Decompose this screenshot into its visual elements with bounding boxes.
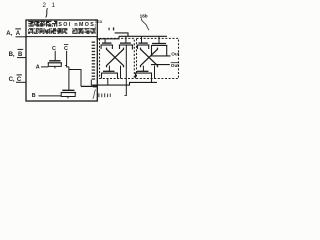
wire top rail xyxy=(119,35,167,37)
title text line2 hangul blobs xyxy=(28,28,96,34)
node B gate label xyxy=(32,93,36,99)
cell1 transistor Q3 (top left) xyxy=(101,39,114,49)
junction blob at box edge xyxy=(93,85,98,88)
title text line1 hangul blobs xyxy=(28,21,57,27)
wire A into box xyxy=(16,36,27,38)
overline of Abar xyxy=(15,28,21,30)
input label B,Bbar xyxy=(9,52,23,58)
wire bottom rail xyxy=(91,82,157,85)
block 21: pass-transistor network box xyxy=(26,20,97,101)
transistor Q2 xyxy=(61,90,76,98)
leader squiggle bottom left xyxy=(93,90,96,99)
wire Cbar down xyxy=(67,51,69,67)
cell1 cross-coupled X xyxy=(107,48,124,68)
input label C,Cbar xyxy=(9,77,22,83)
cell2 cross-coupled X xyxy=(141,48,158,68)
divider under title text xyxy=(26,36,97,38)
label Out xyxy=(171,52,180,57)
wire cell2 X leg down xyxy=(154,66,156,79)
wire cell1 output down xyxy=(125,45,127,96)
cell1 transistor Q5 (bottom) xyxy=(101,66,118,79)
latch cell 1 dashed box xyxy=(100,38,135,78)
node A gate label xyxy=(36,65,40,71)
svg-text:SOI nMOS: SOI nMOS xyxy=(58,22,95,28)
svg-text:Out: Out xyxy=(171,63,180,68)
tick b above top wire xyxy=(113,27,114,30)
leader for label 21 xyxy=(46,8,48,17)
svg-text:B,: B, xyxy=(9,52,15,58)
svg-text:A: A xyxy=(16,31,21,37)
overline of Cbar xyxy=(17,74,22,76)
wire C into box xyxy=(16,81,26,83)
overline of Outbar xyxy=(171,62,179,64)
node Cbar inside box xyxy=(64,46,68,52)
cell2 transistor Q6 (top left) xyxy=(137,36,150,49)
wire Outbar xyxy=(151,64,170,66)
leader for 16b xyxy=(141,18,149,30)
label 16b xyxy=(140,14,148,19)
title text line1 latin xyxy=(58,22,95,28)
svg-text:16a: 16a xyxy=(95,19,103,24)
svg-text:A,: A, xyxy=(6,31,12,37)
bus hatch inside box right xyxy=(92,42,96,80)
label Outbar xyxy=(171,63,180,68)
svg-text:C,: C, xyxy=(9,77,15,83)
svg-text:C: C xyxy=(64,46,68,52)
label 21 xyxy=(43,2,58,9)
svg-text:2 1: 2 1 xyxy=(43,2,58,9)
svg-text:Out: Out xyxy=(171,52,180,57)
wire output to box edge xyxy=(81,85,97,87)
latch cell 2 dashed box xyxy=(137,38,179,78)
wire B into box xyxy=(17,57,26,59)
wire branch to output xyxy=(69,70,81,87)
input label A,Abar xyxy=(6,31,21,37)
cell1 transistor Q4 (top right) xyxy=(119,36,133,49)
wire Out xyxy=(151,55,171,57)
contact tick on Q1 drain xyxy=(65,65,67,67)
wire A to Q1 body xyxy=(41,66,48,68)
node C inside box xyxy=(52,46,56,52)
leader for 16a xyxy=(94,24,97,31)
wire top rail upper xyxy=(115,33,128,36)
transistor Q1 xyxy=(48,61,62,69)
wire cell1 bottom stub xyxy=(107,79,109,86)
hook at leader bottom xyxy=(124,95,126,97)
wire B to Q2 body xyxy=(39,95,62,97)
tick a above top wire xyxy=(109,28,110,31)
svg-text:A: A xyxy=(36,65,40,71)
overline of Bbar xyxy=(18,48,24,50)
wire bus stub down xyxy=(90,80,92,85)
label 16a xyxy=(95,19,103,24)
wire Q4 drain long vertical xyxy=(131,45,133,50)
wire X leg down xyxy=(120,66,122,79)
cell2 transistor Q8 (bottom) xyxy=(135,66,152,83)
cell2 transistor Q7 (top right) xyxy=(151,36,167,56)
label 18b dots xyxy=(98,93,111,97)
wire C to Q1 gate xyxy=(54,51,56,61)
overline of inner Cbar xyxy=(64,43,68,45)
wire Cbar to Q2 gate xyxy=(68,67,70,90)
wire from box to rail xyxy=(97,36,120,39)
svg-text:16b: 16b xyxy=(140,14,148,19)
svg-text:B: B xyxy=(32,93,36,99)
